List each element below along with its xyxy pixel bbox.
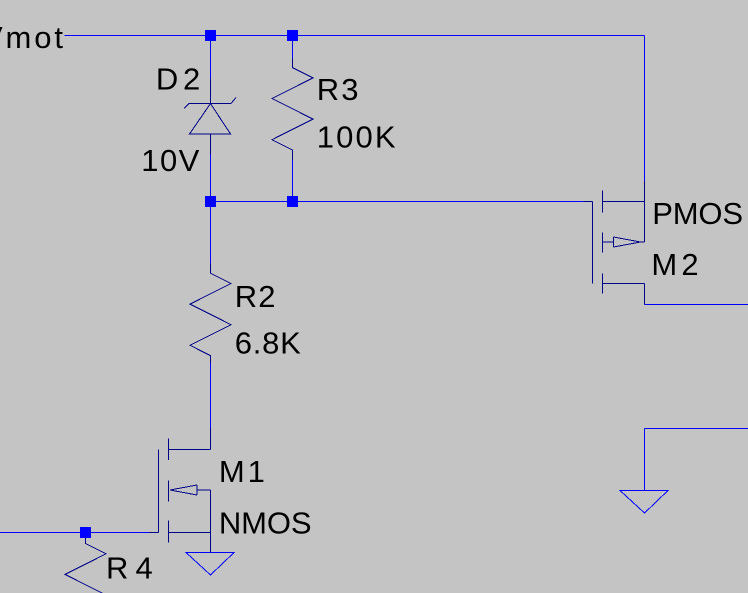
svg-text:R2: R2	[235, 279, 276, 314]
svg-text:10V: 10V	[141, 143, 199, 178]
svg-text:NMOS: NMOS	[219, 506, 312, 541]
svg-text:M2: M2	[651, 247, 698, 282]
svg-text:M1: M1	[219, 454, 265, 489]
svg-text:PMOS: PMOS	[652, 196, 743, 231]
svg-text:D2: D2	[156, 62, 200, 97]
svg-text:R3: R3	[317, 72, 359, 107]
svg-text:6.8K: 6.8K	[235, 326, 301, 361]
svg-text:100K: 100K	[317, 119, 396, 154]
